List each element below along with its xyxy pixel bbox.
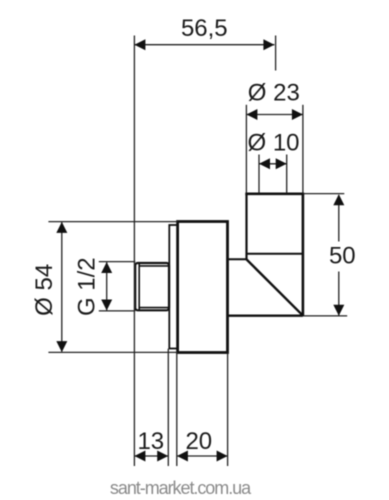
dimension G 1/2 xyxy=(73,257,135,316)
svg-text:56,5: 56,5 xyxy=(181,15,228,42)
outlet bottom line xyxy=(229,315,303,317)
dimension Ø23 xyxy=(246,79,303,193)
vertical pipe right edge xyxy=(302,194,305,316)
threaded spigot G1/2 xyxy=(135,263,169,310)
svg-text:sant-market.com.ua: sant-market.com.ua xyxy=(110,478,252,498)
svg-text:20: 20 xyxy=(185,428,212,455)
dimension Ø10 xyxy=(247,130,299,194)
pipe inner shoulder line xyxy=(247,253,303,255)
svg-text:Ø 23: Ø 23 xyxy=(248,79,300,106)
dimension 20 xyxy=(177,428,228,462)
valve body flange Ø54 (main rectangle) xyxy=(178,222,228,353)
svg-text:G 1/2: G 1/2 xyxy=(73,257,100,316)
vertical pipe left edge xyxy=(245,194,247,260)
svg-text:Ø 54: Ø 54 xyxy=(31,264,58,316)
dimension 50 xyxy=(303,194,356,316)
svg-text:Ø 10: Ø 10 xyxy=(247,130,299,157)
svg-text:50: 50 xyxy=(329,242,356,269)
outlet top line xyxy=(229,258,247,260)
dimension 13 xyxy=(134,428,168,462)
extension line: bottom right to 50-dim xyxy=(303,315,347,317)
extension lines below body for 13 and 20 xyxy=(168,349,227,466)
wall plate behind flange xyxy=(169,225,177,349)
extension line: short right vertical at pipe axis xyxy=(275,36,277,71)
dimension Ø54 xyxy=(31,222,178,353)
extension line: long left vertical at flange face x=134.4 xyxy=(133,36,135,467)
vertical pipe top edge xyxy=(245,193,304,196)
elbow diagonal 45deg xyxy=(247,259,304,315)
svg-text:13: 13 xyxy=(137,428,164,455)
dimension 56,5 xyxy=(134,15,274,50)
